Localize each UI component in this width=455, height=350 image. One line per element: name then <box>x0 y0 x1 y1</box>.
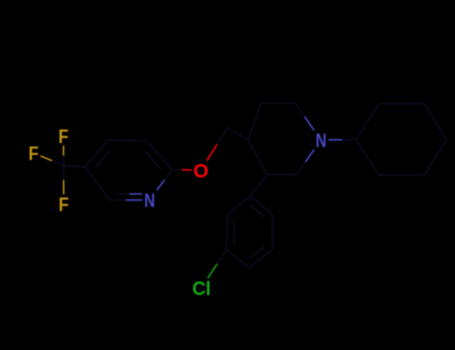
svg-text:F: F <box>59 194 69 216</box>
svg-text:N: N <box>144 189 155 211</box>
svg-text:F: F <box>58 126 68 148</box>
svg-text:N: N <box>316 129 327 151</box>
svg-text:Cl: Cl <box>192 279 211 301</box>
svg-text:F: F <box>29 143 39 165</box>
svg-text:O: O <box>193 160 208 182</box>
